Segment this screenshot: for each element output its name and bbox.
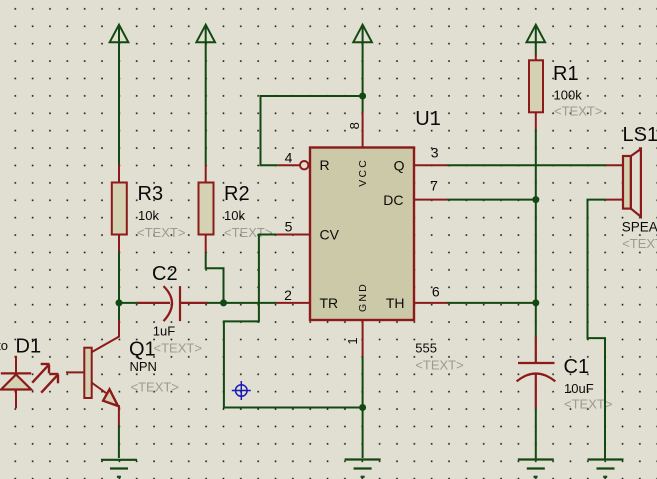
svg-text:R1: R1: [553, 63, 579, 85]
node junction TH/C1: [532, 299, 539, 306]
pin 6 TH stub: [414, 302, 447, 304]
diode D1 (photodiode): [1, 356, 31, 409]
svg-text:Q: Q: [394, 158, 405, 174]
wire emitter to ground: [118, 426, 120, 459]
svg-text:<TEXT>: <TEXT>: [137, 225, 185, 240]
svg-text:<TEXT>: <TEXT>: [554, 104, 602, 119]
resistor R3: [112, 165, 127, 253]
svg-text:100k: 100k: [554, 88, 583, 103]
capacitor C2: [138, 286, 208, 321]
svg-text:2: 2: [284, 287, 292, 303]
svg-text:R: R: [320, 157, 330, 173]
D1 light arrow 1: [32, 364, 49, 383]
power terminal 3 (VCC of U1): [353, 25, 372, 43]
svg-text:8: 8: [347, 122, 362, 129]
node junction VCC rail: [359, 93, 366, 100]
svg-text:5: 5: [285, 219, 293, 235]
resistor R1: [529, 55, 543, 130]
svg-text:D1: D1: [16, 335, 42, 357]
svg-text:TH: TH: [386, 295, 405, 311]
svg-text:LS1: LS1: [623, 124, 657, 146]
svg-text:10k: 10k: [138, 208, 159, 223]
ground (under U1): [345, 460, 381, 477]
svg-text:to: to: [0, 338, 8, 353]
wire Q output to speaker: [447, 164, 606, 166]
pin 4 R stub with bubble: [278, 161, 309, 169]
svg-text:<TEXT>: <TEXT>: [224, 225, 272, 240]
transistor Q1: [66, 320, 120, 426]
ground (under Q1): [101, 460, 137, 477]
svg-text:GND: GND: [357, 282, 369, 312]
wire junction down to C1: [535, 303, 537, 337]
wire TH to R1/C1 column: [447, 302, 536, 304]
svg-text:R3: R3: [138, 183, 164, 205]
power terminal 1 (top of R3): [110, 25, 129, 43]
svg-text:<TEXT>: <TEXT>: [622, 236, 657, 251]
speaker LS1: [606, 149, 641, 217]
D1 light arrow 2: [41, 374, 58, 393]
wire junction to C2 left pin: [119, 302, 139, 304]
svg-text:10k: 10k: [224, 208, 245, 223]
svg-text:555: 555: [415, 340, 437, 355]
wire C2 right pin to junction/TR: [207, 302, 276, 304]
pin 8 VCC stub: [362, 113, 364, 148]
svg-text:3: 3: [431, 145, 439, 161]
resistor R2: [199, 165, 214, 253]
pin 7 DC stub: [414, 199, 447, 201]
pin 3 Q stub: [414, 164, 447, 166]
node junction R2/C2/TR: [220, 299, 227, 306]
wire R1/DC junction down to TH junction: [535, 200, 537, 303]
node junction GND net: [359, 404, 366, 411]
svg-text:TR: TR: [320, 295, 339, 311]
wire junction down to Q1 collector: [118, 303, 120, 321]
wire power4 to R1: [535, 42, 537, 55]
no-ERC marker (blue crosshair): [232, 381, 251, 400]
wire C1 to ground: [535, 408, 537, 458]
svg-text:SPEAKER: SPEAKER: [622, 220, 657, 235]
svg-text:1uF: 1uF: [153, 323, 175, 338]
svg-text:DC: DC: [383, 192, 403, 208]
svg-text:1: 1: [345, 337, 360, 344]
node junction R1/DC: [532, 196, 539, 203]
svg-text:10uF: 10uF: [564, 381, 594, 396]
svg-text:<TEXT>: <TEXT>: [154, 340, 202, 355]
svg-text:R2: R2: [224, 183, 250, 205]
wire CV to ground net: [224, 235, 363, 408]
wire R3 bottom to junction: [118, 253, 120, 303]
wire DC to R1 bottom: [447, 199, 536, 201]
ground (under C1): [518, 460, 554, 477]
power terminal 4 (top of R1): [527, 25, 546, 43]
svg-text:6: 6: [432, 284, 440, 300]
svg-text:7: 7: [430, 178, 438, 194]
svg-text:C2: C2: [152, 263, 178, 285]
pin 2 TR stub: [276, 302, 310, 304]
wire pin1 to ground: [362, 356, 364, 458]
wire speaker lower pin to ground: [588, 200, 606, 459]
wire power1 to R3: [118, 42, 120, 164]
svg-text:<TEXT>: <TEXT>: [131, 379, 179, 394]
wire R1 bottom down: [535, 129, 537, 200]
pin 1 GND stub: [362, 320, 364, 356]
pin 5 CV stub: [276, 234, 310, 236]
svg-text:Q1: Q1: [129, 338, 156, 360]
wire R2 bottom elbow to junction: [206, 253, 224, 303]
wire power3 to U1 pin 8: [362, 42, 364, 112]
ground (under LS1): [588, 460, 624, 477]
svg-text:C1: C1: [564, 356, 590, 378]
svg-text:U1: U1: [415, 108, 441, 130]
svg-text:NPN: NPN: [130, 359, 157, 374]
capacitor C1: [517, 337, 556, 409]
node junction R3/C2/collector: [116, 299, 123, 306]
power terminal 2 (top of R2): [196, 25, 215, 43]
svg-text:CV: CV: [320, 227, 340, 243]
wire power2 to R2: [205, 42, 207, 164]
svg-text:VCC: VCC: [357, 158, 369, 187]
chip U1 555 body: [310, 148, 414, 321]
svg-text:4: 4: [285, 149, 293, 165]
wire reset net (pin4 to VCC rail): [261, 96, 363, 165]
svg-text:<TEXT>: <TEXT>: [415, 357, 463, 372]
